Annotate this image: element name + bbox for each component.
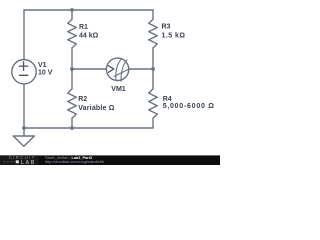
svg-text:R2: R2	[78, 96, 87, 103]
svg-text:LAB: LAB	[21, 160, 36, 165]
svg-text:R3: R3	[162, 24, 171, 31]
svg-text:Variable Ω: Variable Ω	[78, 105, 115, 112]
svg-text:V1: V1	[38, 62, 47, 69]
svg-text:http://circuitlab.com/c/cgbzsk: http://circuitlab.com/c/cgbzskn8e6b	[45, 160, 104, 164]
svg-text:10 V: 10 V	[38, 69, 53, 76]
svg-text:VM1: VM1	[111, 86, 126, 93]
svg-text:R1: R1	[79, 24, 88, 31]
svg-text:5,000-6000 Ω: 5,000-6000 Ω	[163, 103, 215, 110]
svg-text:1.5 kΩ: 1.5 kΩ	[162, 33, 186, 40]
svg-text:44 kΩ: 44 kΩ	[79, 33, 99, 40]
svg-text:R4: R4	[163, 96, 172, 103]
